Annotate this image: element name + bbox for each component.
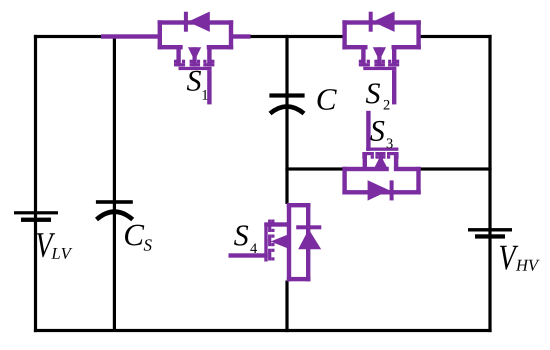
wire S3 source segment [342, 167, 388, 171]
wire middle vertical lower (S4 to bottom rail) [285, 281, 288, 333]
wire S3 drain segment [394, 167, 421, 171]
wire top (V_LV plus rail, left segment) [34, 35, 103, 38]
label S3 [370, 121, 392, 148]
label C [318, 89, 337, 110]
wire S4 drain-source segment [287, 203, 291, 281]
wire bottom (common negative rail) [34, 329, 492, 332]
label V_HV [500, 246, 540, 271]
capacitor C_S [96, 200, 133, 219]
body diode of S2 [369, 12, 395, 32]
transistor S2 channel [342, 20, 420, 70]
label S1 [187, 71, 208, 100]
capacitor C [269, 93, 304, 113]
transistor S4 channel [264, 203, 310, 281]
label C_S [125, 225, 152, 251]
wire S1 drain lead [231, 34, 251, 38]
wire top (S2 to V_HV plus rail) [418, 35, 492, 38]
label V_LV [37, 233, 73, 259]
label S4 [234, 225, 257, 253]
wire S4 gate lead [229, 253, 268, 257]
wire inner horizontal (node A to S3) [285, 167, 344, 170]
wire S2 gate lead [392, 70, 396, 104]
wire S1 source lead [101, 34, 160, 38]
label S2 [366, 83, 390, 109]
wire right (V_HV branch) [488, 35, 491, 332]
battery V_HV [468, 228, 512, 239]
wire C_S branch vertical [113, 36, 116, 330]
battery V_LV [14, 211, 58, 222]
wire S1 gate lead [207, 70, 211, 104]
wire left (V_LV branch) [34, 35, 37, 332]
transistor S3 channel [342, 148, 420, 195]
body diode of S3 [368, 180, 394, 200]
transistor S1 channel [158, 20, 234, 70]
wire top (node between S1 and S2) [249, 35, 344, 38]
body diode of S1 [184, 12, 210, 32]
wire middle vertical upper (top rail through C to node A) [285, 35, 288, 204]
wire S3 gate lead [366, 111, 370, 151]
wire inner horizontal (S3 to right rail) [417, 167, 492, 170]
body diode of S4 [296, 225, 321, 249]
